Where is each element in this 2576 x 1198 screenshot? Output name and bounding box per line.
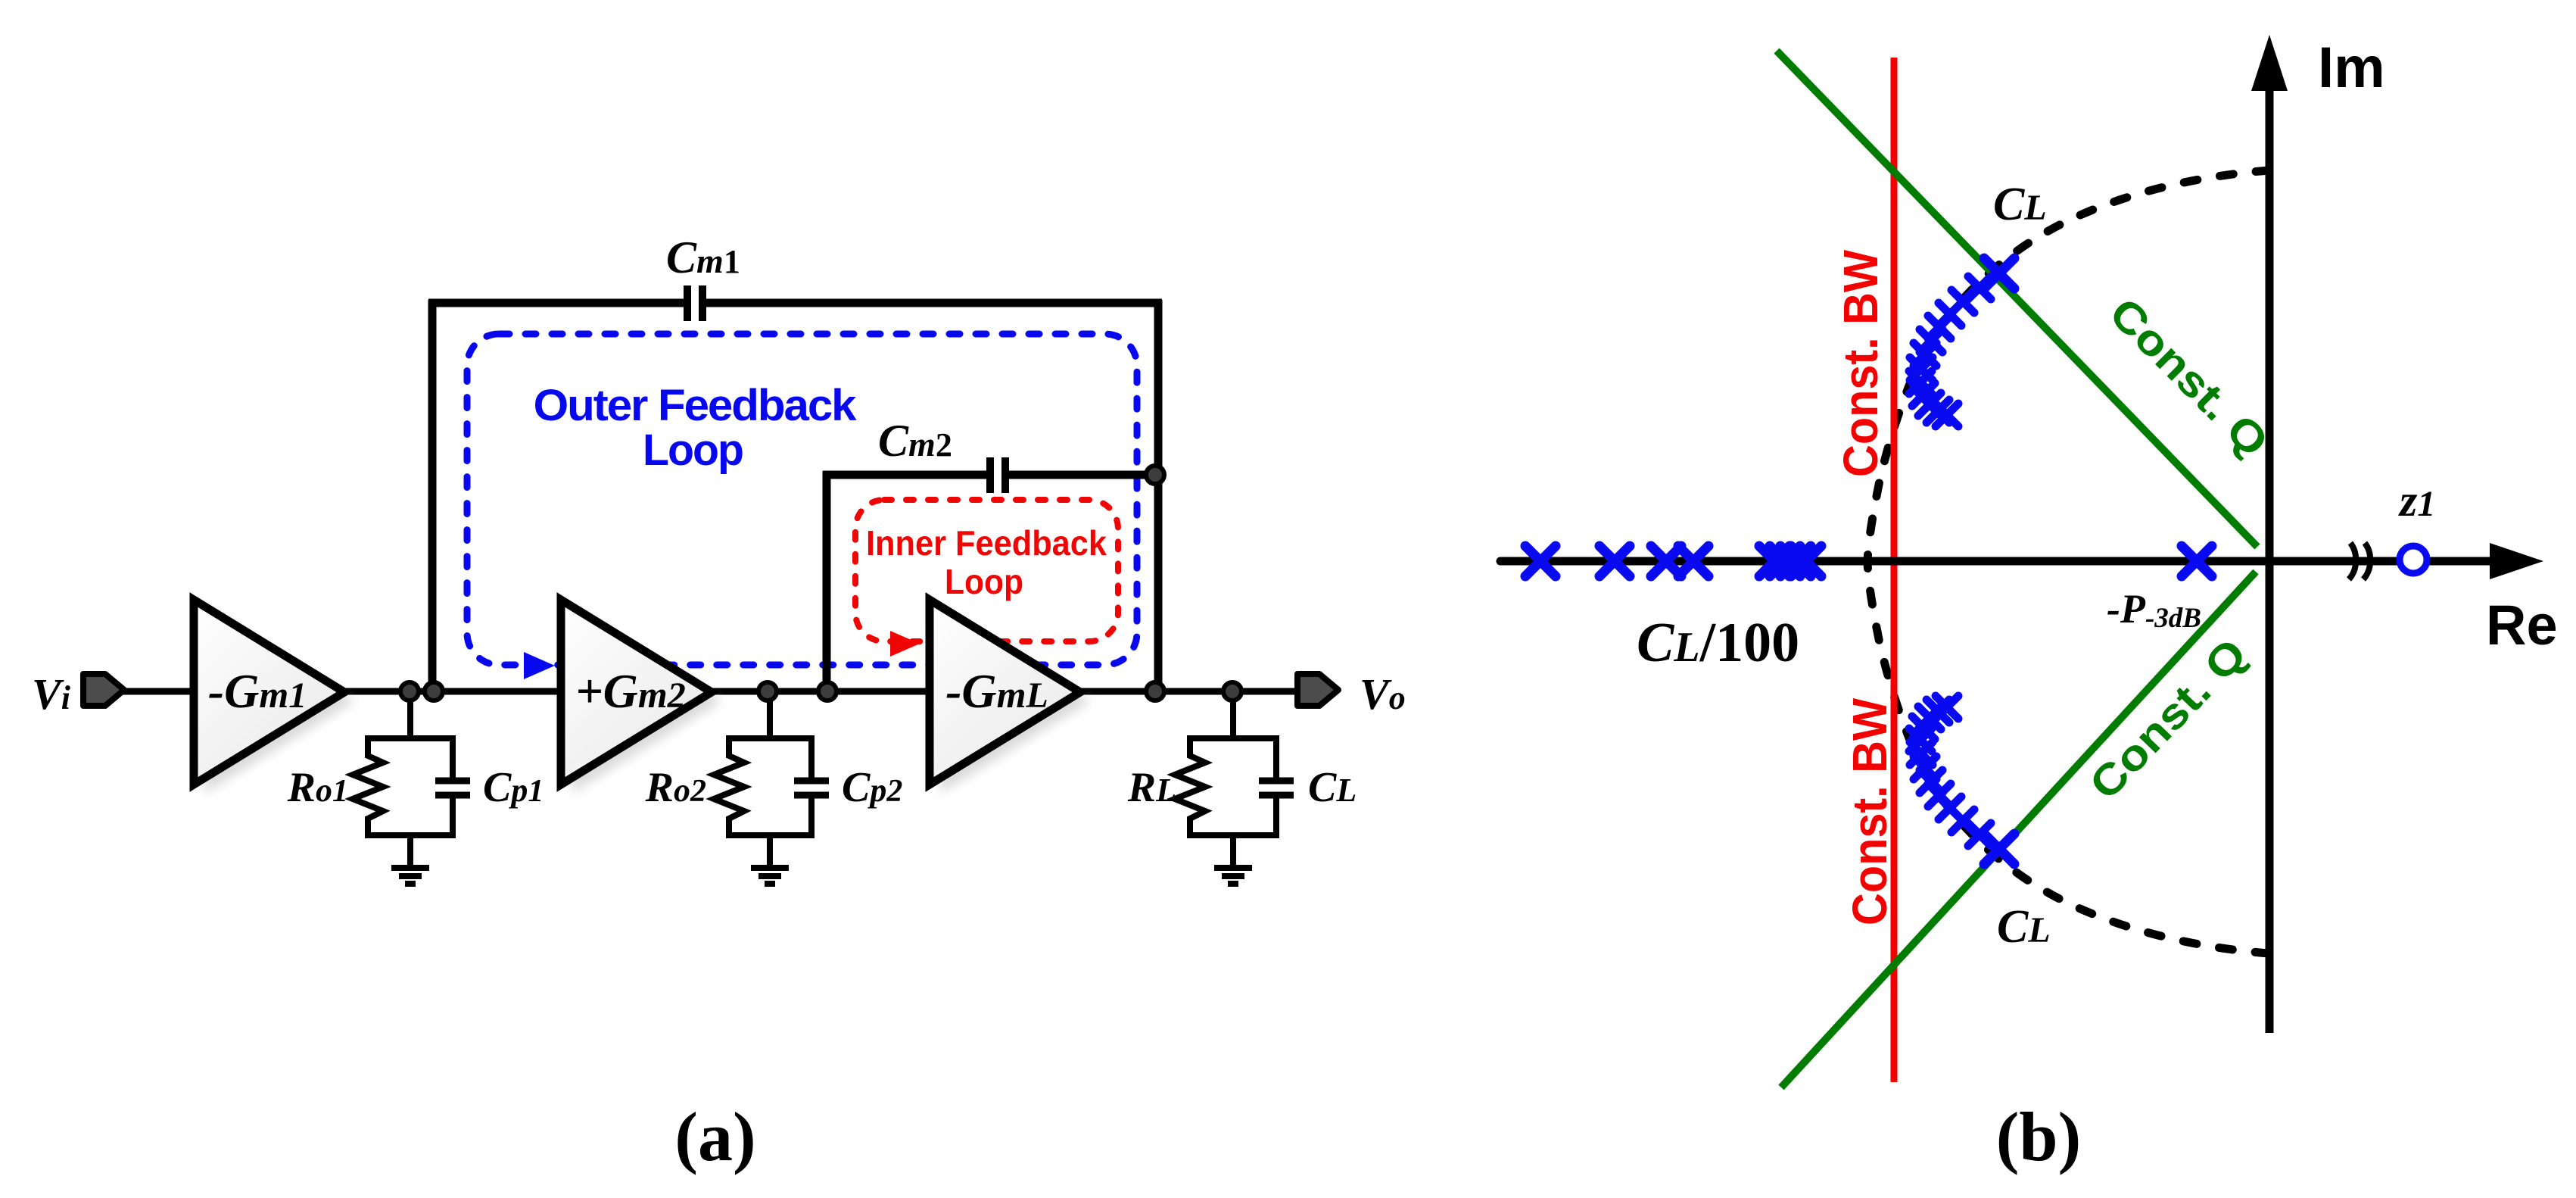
wire: Cm2 right segment <box>1008 471 1158 479</box>
complex pole trail upper <box>1984 258 2014 289</box>
Re axis <box>1500 557 2492 566</box>
Ro2Cp2 load frame <box>729 738 811 835</box>
wire: node2 riser to Cm2 <box>823 471 831 691</box>
const Q line lower (green) <box>1781 572 2256 1087</box>
const BW line (red) <box>1891 58 1898 1082</box>
wire: node1 riser to Cm1 <box>428 300 437 691</box>
wire: Gm1 output bus to Gm2 <box>341 688 564 695</box>
svg-text:Loop: Loop <box>945 562 1023 601</box>
wire: node down to Ro2Cp2 load <box>767 691 773 738</box>
wire: GmL output to Vo <box>1076 688 1297 695</box>
inner feedback loop box <box>855 500 1118 641</box>
axis break symbol <box>2349 543 2370 579</box>
capacitor Cm1 <box>687 285 702 321</box>
wire: node down to Ro1Cp1 load <box>407 691 413 738</box>
ground symbol <box>751 868 789 884</box>
svg-text:Loop: Loop <box>643 426 743 475</box>
wire: Cm1 top right segment <box>704 299 1162 307</box>
wire: Gm2 output bus to GmL <box>708 688 933 695</box>
resistor RL <box>1175 753 1205 820</box>
capacitor Cp2 <box>808 753 815 781</box>
svg-text:Const. BW: Const. BW <box>1842 697 1897 925</box>
svg-text:RL: RL <box>1127 764 1176 811</box>
resistor Ro1 <box>353 753 383 820</box>
inner feedback loop arrow <box>890 631 920 657</box>
zero z1 <box>2400 546 2427 573</box>
svg-text:(a): (a) <box>674 1098 755 1175</box>
const Q line upper (green) <box>1777 51 2257 547</box>
wire: Cm2 left segment <box>823 471 989 479</box>
ground symbol <box>391 868 429 884</box>
complex pole trail lower <box>1984 834 2014 864</box>
capacitor Cm2 <box>990 457 1005 493</box>
svg-text:(b): (b) <box>1996 1098 2081 1175</box>
node dots on buses <box>400 466 1241 700</box>
svg-text:CL/100: CL/100 <box>1637 612 1799 674</box>
ground symbol <box>1214 868 1252 884</box>
outer feedback loop label <box>534 381 858 475</box>
amplifier -Gm1 <box>194 600 344 785</box>
resistor Ro2 <box>714 753 744 820</box>
pole markers on negative real axis <box>1525 546 1556 576</box>
wire: Ro1Cp1 to ground <box>407 835 413 868</box>
Im axis <box>2266 87 2274 1033</box>
svg-text:CL: CL <box>1308 764 1357 811</box>
svg-text:Im: Im <box>2318 36 2385 100</box>
wire: input to Gm1 <box>121 688 198 695</box>
RLCL load frame <box>1190 738 1276 835</box>
amplifier -GmL shadow <box>940 609 1091 794</box>
svg-text:Outer Feedback: Outer Feedback <box>534 381 858 430</box>
amplifier -GmL <box>930 600 1080 785</box>
amplifier -Gm1 shadow <box>204 609 355 794</box>
wire: Cm1 top left segment <box>428 299 686 307</box>
svg-text:Re: Re <box>2486 594 2558 657</box>
capacitor CL <box>1273 753 1279 781</box>
inner feedback loop label <box>866 523 1107 601</box>
svg-text:Inner Feedback: Inner Feedback <box>866 523 1107 563</box>
outer feedback loop box <box>467 334 1137 665</box>
outer feedback loop arrow <box>524 652 555 679</box>
capacitor Cp1 <box>450 753 456 781</box>
pole marker -P-3dB <box>2182 546 2212 576</box>
svg-text:Const. BW: Const. BW <box>1833 249 1888 477</box>
wire: node down to RLCL load <box>1230 691 1236 738</box>
wire: output riser Cm1 to main bus <box>1154 300 1163 691</box>
dashed root-locus arc CL <box>1867 170 2269 953</box>
amplifier +Gm2 shadow <box>572 609 722 794</box>
input port Vi <box>83 674 124 706</box>
output port Vo <box>1297 674 1338 706</box>
amplifier +Gm2 <box>561 600 712 785</box>
wire: Ro2Cp2 to ground <box>767 835 773 868</box>
wire: RLCL to ground <box>1230 835 1236 868</box>
Ro1Cp1 load frame <box>368 738 453 835</box>
